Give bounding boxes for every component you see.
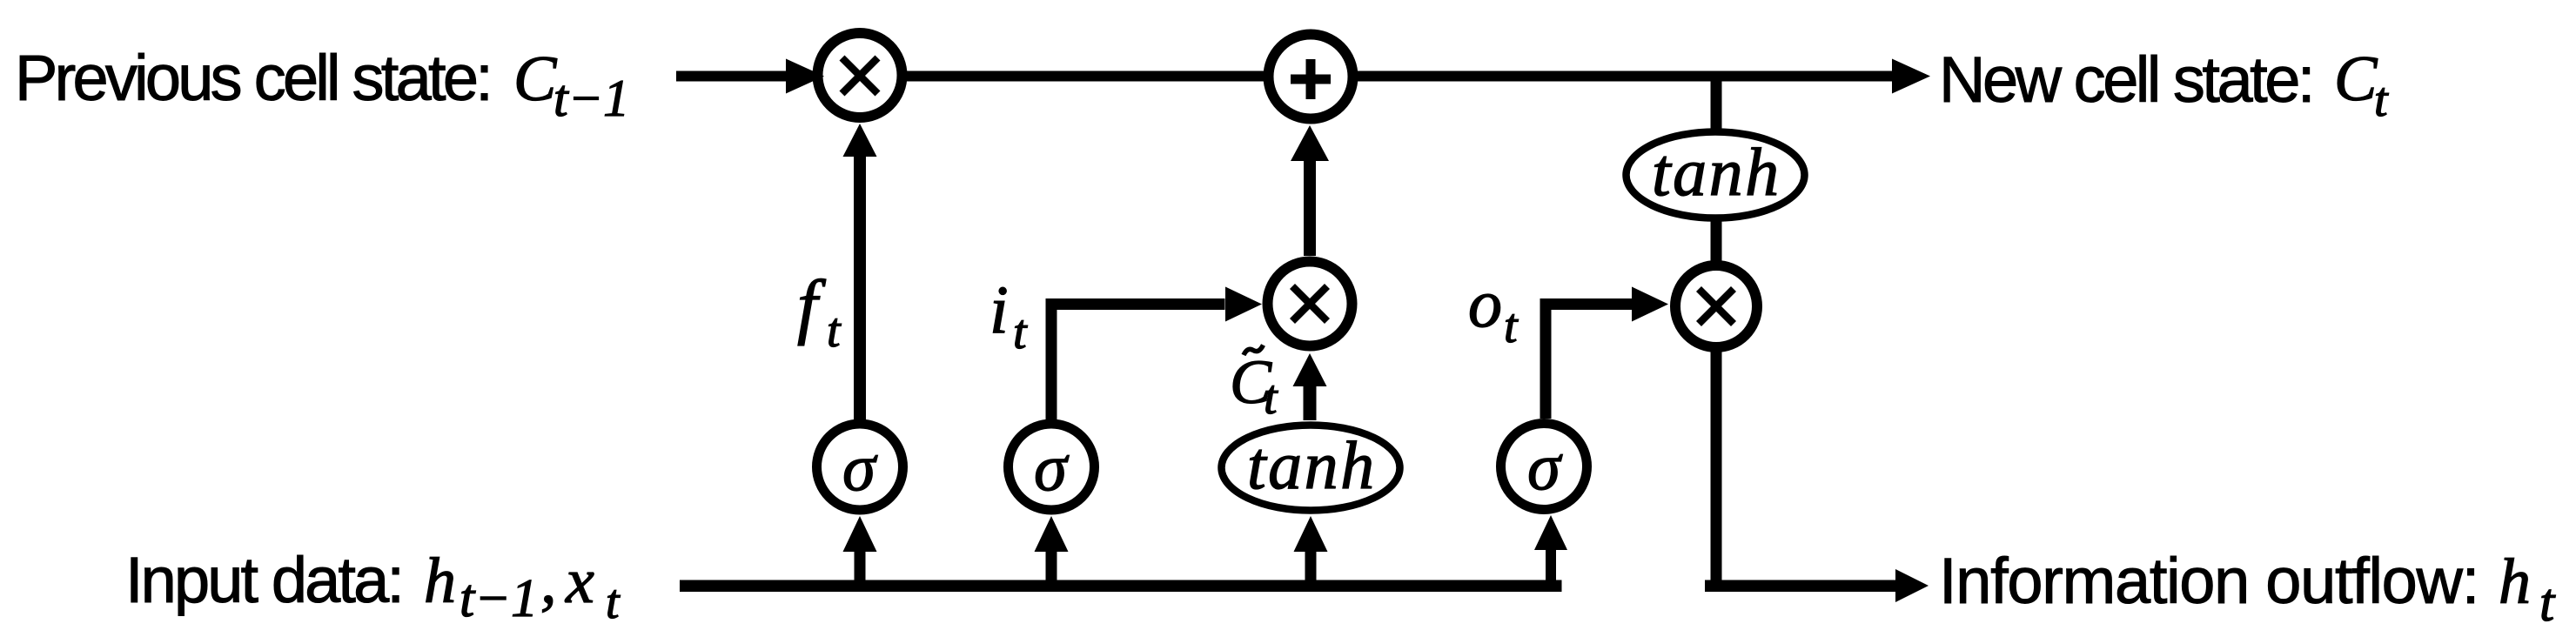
wire: C~_t arrow from tanh up into middle multiply: [1293, 353, 1327, 420]
svg-text:i: i: [989, 272, 1009, 347]
svg-text:t: t: [827, 304, 842, 358]
svg-text:σ: σ: [1034, 430, 1070, 505]
wire: f_t arrow from sigma1 up into multiply node: [843, 124, 877, 419]
wire: o_t path from sigma3 up and right into right multiply: [1540, 287, 1669, 419]
sigma node: output gate sigma3: [1501, 424, 1587, 510]
svg-text:h: h: [424, 546, 456, 617]
svg-text:New cell state:: New cell state:: [1939, 44, 2312, 116]
svg-text:o: o: [1468, 265, 1502, 341]
svg-text:Information outflow:: Information outflow:: [1939, 545, 2479, 617]
wire: from top tanh down into right multiply: [1711, 219, 1722, 265]
svg-text:h: h: [2499, 546, 2531, 618]
label f_t: [797, 265, 842, 358]
svg-text:σ: σ: [842, 430, 878, 505]
svg-text:t: t: [606, 575, 621, 629]
wire: arrow from middle multiply up into plus node: [1291, 125, 1329, 256]
wire: top line between multiply and plus: [905, 71, 1265, 82]
svg-text:C: C: [2334, 44, 2378, 115]
label h_t (outflow): [2499, 546, 2556, 633]
wire: i_t path from sigma2 up and right into middle multiply: [1046, 287, 1263, 420]
wire: input data line along bottom: [680, 580, 1562, 593]
svg-text:tanh: tanh: [1247, 427, 1377, 503]
svg-text:σ: σ: [1527, 429, 1563, 504]
wire: output path down from right multiply then right to h_t arrow: [1705, 348, 1929, 602]
wire: arrow from input line up into sigma2: [1035, 516, 1069, 580]
svg-text:Input data:: Input data:: [125, 544, 402, 616]
svg-text:t: t: [2539, 573, 2556, 633]
svg-text:t: t: [1013, 305, 1028, 359]
tanh node: candidate tanh (bottom ellipse): [1222, 426, 1400, 511]
label o_t: [1468, 265, 1519, 353]
sigma node: forget gate sigma1: [817, 424, 903, 510]
wire: arrow from input line up into sigma3: [1534, 515, 1567, 580]
wire: arrow from input line up into tanh node: [1294, 516, 1328, 580]
svg-text:t−1: t−1: [460, 569, 538, 628]
svg-text:C: C: [513, 44, 558, 115]
svg-text:t−1: t−1: [553, 70, 629, 127]
label C_t: [2334, 44, 2389, 127]
multiply node: forget gate multiply (top-left): [818, 33, 902, 117]
svg-text:Previous cell state:: Previous cell state:: [15, 42, 490, 114]
svg-text:t: t: [1264, 371, 1278, 425]
multiply node: output gate multiply (right): [1675, 265, 1757, 347]
wire: junction drop from top line into top tanh: [1711, 81, 1722, 131]
plus node: cell-state addition: [1269, 35, 1353, 119]
svg-text:,: ,: [540, 546, 557, 617]
tanh node: output tanh (top ellipse): [1627, 132, 1805, 218]
svg-text:t: t: [2374, 73, 2389, 127]
svg-text:x: x: [565, 546, 594, 617]
svg-text:t: t: [1504, 299, 1519, 353]
wire: top line from plus to right arrow into New cell state: [1356, 59, 1930, 94]
label i_t: [989, 272, 1028, 359]
sigma node: input gate sigma2: [1009, 424, 1095, 510]
label C~_t: [1230, 345, 1278, 426]
wire: top cell-state line left segment with arrow into multiply: [676, 59, 824, 94]
label C_t-1: [513, 44, 629, 127]
multiply node: input gate multiply (middle): [1268, 262, 1352, 346]
svg-text:tanh: tanh: [1652, 134, 1781, 210]
wire: arrow from input line up into sigma1: [843, 516, 877, 580]
label h_t-1, x_t: [424, 546, 621, 629]
